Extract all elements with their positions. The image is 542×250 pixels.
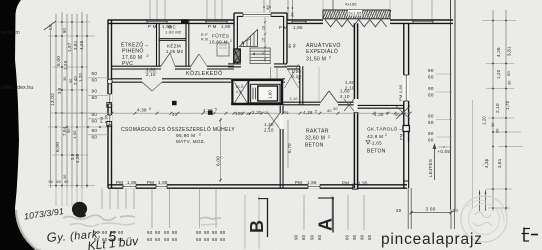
stairwell top window: [243, 12, 271, 16]
column blocks: [172, 101, 177, 105]
svg-text:2,10: 2,10: [146, 72, 156, 77]
black scan band left edge: [0, 0, 35, 250]
svg-text:1,20: 1,20: [78, 73, 83, 82]
lift car: [251, 84, 280, 103]
svg-text:60: 60: [92, 95, 98, 100]
wall etkezo/wc: [156, 23, 158, 66]
door corridor to aruatvevo: [285, 64, 299, 88]
svg-text:ELŐ: ELŐ: [236, 84, 244, 89]
svg-text:PVC: PVC: [122, 61, 133, 67]
svg-text:2: 2: [385, 133, 387, 137]
svg-text:60: 60: [92, 78, 98, 83]
door swings top rooms: [161, 53, 170, 66]
svg-text:R.P: R.P: [201, 33, 208, 37]
svg-text:5: 5: [149, 107, 151, 111]
svg-text:30: 30: [265, 5, 270, 10]
svg-text:R.N: R.N: [201, 38, 208, 42]
gk right wall: [403, 23, 405, 188]
svg-text:2,10: 2,10: [340, 94, 350, 99]
svg-text:90: 90: [352, 234, 357, 240]
svg-text:90: 90: [428, 86, 434, 91]
corridor bottom wall: [112, 78, 143, 80]
bottom wall windows: [123, 184, 136, 189]
svg-text:30: 30: [63, 174, 67, 179]
svg-text:32,60 M: 32,60 M: [305, 136, 325, 142]
svg-text:90: 90: [506, 71, 511, 76]
svg-text:15: 15: [264, 111, 269, 115]
svg-text:60: 60: [155, 237, 161, 242]
svg-text:1,97: 1,97: [67, 42, 72, 52]
svg-text:40: 40: [293, 43, 297, 48]
svg-text:90: 90: [294, 234, 299, 240]
svg-text:4x185: 4x185: [345, 3, 357, 7]
svg-text:90: 90: [428, 68, 434, 73]
horizontal wall south of aruatvevo: [283, 101, 320, 103]
door V swing up: [320, 91, 329, 103]
svg-text:2,10: 2,10: [290, 97, 298, 101]
raktar-gk door swing: [344, 99, 354, 111]
raktar 6,70 vertical dim: [287, 120, 289, 168]
svg-text:1,60: 1,60: [345, 80, 355, 85]
left outer wall: [107, 20, 109, 189]
svg-text:1,95: 1,95: [293, 25, 303, 30]
svg-text:60: 60: [220, 237, 226, 242]
svg-text:PIHENŐ: PIHENŐ: [122, 48, 144, 55]
svg-text:90: 90: [92, 89, 98, 94]
svg-text:90: 90: [428, 131, 434, 136]
left column stubs below wall: [55, 188, 57, 206]
corridor door swing: [142, 82, 152, 91]
svg-text:60: 60: [92, 119, 98, 124]
svg-text:2,30: 2,30: [252, 110, 262, 115]
stairwell bottom wall pieces: [228, 63, 241, 65]
svg-text:4,26: 4,26: [484, 158, 489, 168]
svg-text:2,10: 2,10: [345, 86, 355, 91]
svg-text:2,10: 2,10: [495, 103, 500, 113]
pillar block in top wall: [181, 19, 188, 23]
svg-text:5: 5: [315, 110, 317, 114]
gk gate door X: [396, 106, 410, 119]
zigzag stair marks under ramp: [325, 20, 387, 27]
svg-text:60: 60: [428, 120, 434, 125]
svg-text:1,70: 1,70: [505, 100, 510, 110]
svg-text:3,81: 3,81: [507, 46, 512, 56]
wall right of wc block: [185, 20, 187, 67]
svg-text:PM: PM: [295, 180, 302, 185]
svg-text:4,26: 4,26: [496, 47, 501, 57]
section marker B: [267, 198, 269, 237]
svg-text:60: 60: [147, 237, 153, 242]
right outer wall double line: [450, 0, 452, 209]
svg-text:50: 50: [92, 71, 98, 76]
corridor top wall: [112, 65, 162, 67]
svg-text:P M: P M: [148, 24, 157, 29]
svg-text:1,29: 1,29: [63, 60, 68, 70]
E- mark right: [523, 228, 525, 242]
svg-text:-1,65: -1,65: [370, 141, 382, 146]
svg-text:10,60 M: 10,60 M: [209, 40, 228, 45]
lift block walls: [231, 79, 283, 82]
workshop 6,00 vertical dim: [220, 118, 222, 182]
svg-text:90: 90: [204, 230, 210, 235]
svg-text:1,40: 1,40: [264, 122, 274, 127]
svg-text:90: 90: [92, 112, 98, 117]
svg-text:60: 60: [428, 138, 434, 143]
svg-text:40: 40: [395, 113, 400, 117]
stair triangle upper flight: [240, 30, 258, 47]
duct box bottom-left of stairwell: [234, 49, 241, 62]
svg-text:4,9: 4,9: [236, 90, 241, 94]
svg-text:1,90: 1,90: [72, 130, 77, 139]
svg-text:30: 30: [401, 111, 406, 115]
raktar right wall: [353, 23, 355, 188]
svg-text:17,60 M: 17,60 M: [122, 55, 142, 61]
svg-text:EXPEDIÁLÓ: EXPEDIÁLÓ: [306, 48, 338, 55]
svg-text:+0,05: +0,05: [438, 149, 451, 154]
svg-text:CSOMAGOLÓ ÉS ÖSSZESZERELŐ MŰHE: CSOMAGOLÓ ÉS ÖSSZESZERELŐ MŰHELY: [121, 126, 235, 133]
svg-text:6,00: 6,00: [216, 156, 222, 166]
svg-text:P M: P M: [208, 24, 217, 29]
svg-text:/peter-m: /peter-m: [1, 30, 20, 36]
svg-text:2: 2: [329, 56, 331, 60]
svg-text:1,95: 1,95: [307, 180, 317, 185]
svg-text:30: 30: [508, 80, 512, 85]
top wall window symbols: [147, 21, 167, 23]
svg-text:B: B: [247, 220, 267, 233]
svg-text:90: 90: [496, 128, 500, 133]
stairs lower flight treads: [250, 47, 270, 49]
svg-text:16: 16: [262, 26, 266, 30]
svg-text:4,38: 4,38: [137, 108, 147, 113]
svg-text:90: 90: [147, 230, 153, 235]
svg-text:60: 60: [288, 43, 292, 48]
circle marker on left wall: [107, 79, 112, 84]
paper edge arc bottom left: [16, 210, 95, 250]
hatched entry ramp: [323, 10, 390, 19]
svg-text:15: 15: [246, 112, 251, 116]
svg-text:2: 2: [199, 132, 201, 136]
left wall windows: [107, 94, 112, 104]
stairwell walls: [233, 13, 235, 64]
svg-text:90: 90: [212, 230, 218, 235]
svg-text:PM 1,95: PM 1,95: [398, 84, 403, 101]
svg-text:90: 90: [360, 234, 365, 240]
svg-text:GK.TÁROLÓ –: GK.TÁROLÓ –: [367, 126, 402, 133]
svg-text:90: 90: [64, 180, 69, 184]
svg-text:60: 60: [172, 237, 178, 242]
svg-text:2,10: 2,10: [264, 128, 274, 133]
svg-text:60: 60: [301, 234, 306, 240]
lift shaft X cell: [235, 83, 248, 103]
dark blob bottom left: [70, 200, 88, 218]
svg-text:20: 20: [396, 208, 402, 213]
svg-text:PM: PM: [99, 117, 104, 123]
svg-text:ÉTKEZŐ –: ÉTKEZŐ –: [121, 42, 148, 49]
svg-text:60: 60: [196, 237, 202, 242]
svg-text:15: 15: [262, 38, 266, 42]
svg-text:2: 2: [230, 39, 232, 43]
svg-text:90: 90: [172, 230, 178, 235]
svg-text:60: 60: [317, 234, 322, 240]
svg-text:1,05 M2: 1,05 M2: [166, 49, 184, 54]
svg-text:PM: PM: [147, 180, 154, 185]
svg-text:3,81: 3,81: [73, 40, 78, 50]
bottom outer wall: [108, 184, 407, 186]
svg-text:5: 5: [386, 112, 388, 116]
svg-text:90: 90: [92, 128, 98, 133]
svg-text:ÁRUÁTVEVŐ: ÁRUÁTVEVŐ: [306, 42, 341, 49]
wc divider: [159, 38, 186, 40]
svg-text:60: 60: [204, 237, 210, 242]
left column tick rows: [58, 21, 90, 23]
svg-text:90: 90: [428, 114, 434, 119]
svg-text:60: 60: [164, 237, 170, 242]
svg-text:PM: PM: [399, 134, 404, 140]
driveway 3.00 dimension: [411, 212, 451, 214]
svg-text:90: 90: [67, 128, 71, 133]
svg-text:LEJTÉS: LEJTÉS: [427, 159, 433, 177]
gk top wall: [358, 104, 404, 106]
svg-text:1,20: 1,20: [496, 69, 501, 79]
svg-text:31,50 M: 31,50 M: [306, 57, 326, 63]
svg-text:20: 20: [453, 208, 459, 213]
svg-text:6,00: 6,00: [55, 142, 61, 152]
svg-text:1,60: 1,60: [268, 90, 273, 99]
raktar left wall: [279, 106, 281, 188]
svg-text:30: 30: [491, 122, 495, 127]
svg-text:90: 90: [118, 230, 124, 235]
svg-text:KÉZM: KÉZM: [167, 43, 181, 49]
svg-text:BETON: BETON: [305, 143, 324, 149]
outer top wall: [108, 19, 234, 21]
svg-text:90: 90: [220, 230, 226, 235]
right dimension column: [492, 10, 494, 211]
svg-text:3,8: 3,8: [57, 87, 62, 94]
svg-text:1,20: 1,20: [482, 116, 487, 125]
svg-text:PM: PM: [116, 180, 123, 185]
svg-text:5x1,85: 5x1,85: [349, 12, 362, 16]
svg-text:3,81: 3,81: [497, 158, 502, 168]
svg-text:90: 90: [102, 230, 108, 235]
svg-text:75: 75: [284, 111, 289, 115]
svg-text:60: 60: [428, 93, 434, 98]
svg-text:60: 60: [367, 234, 372, 240]
svg-text:5: 5: [215, 108, 217, 112]
svg-text:60: 60: [92, 135, 98, 140]
svg-text:6,70: 6,70: [287, 143, 292, 153]
svg-text:90: 90: [62, 27, 67, 33]
svg-text:90: 90: [155, 230, 161, 235]
svg-text:40: 40: [172, 112, 178, 117]
svg-text:90: 90: [310, 234, 315, 240]
svg-text:pincealaprajz: pincealaprajz: [381, 231, 483, 248]
svg-text:60: 60: [428, 75, 434, 80]
svg-text:36: 36: [290, 12, 295, 17]
stamp circle: [461, 196, 507, 242]
driveway edge lines below: [407, 188, 409, 229]
svg-text:4,26: 4,26: [75, 154, 80, 163]
aruatvevo left wall: [299, 66, 301, 105]
lejtes slope arrow: [434, 146, 436, 180]
svg-text:43,8 M: 43,8 M: [367, 134, 383, 140]
svg-text:PM: PM: [342, 181, 349, 186]
svg-text:1,95: 1,95: [221, 24, 231, 29]
svg-text:sidel.ndex.hu: sidel.ndex.hu: [1, 85, 33, 91]
stair arrow small: [242, 39, 250, 43]
svg-text:3 00: 3 00: [426, 207, 436, 212]
gk right window: [403, 126, 409, 132]
top extension lines: [149, 0, 151, 20]
svg-text:90: 90: [196, 230, 202, 235]
under-wall extension lines: [101, 189, 103, 210]
svg-text:90: 90: [164, 230, 170, 235]
svg-text:2: 2: [328, 135, 330, 139]
lower flight arrow: [253, 53, 262, 55]
stair dim line center: [264, 17, 266, 62]
svg-text:40: 40: [327, 109, 332, 113]
svg-text:KÖZLEKEDŐ: KÖZLEKEDŐ: [186, 70, 223, 77]
svg-text:4,38: 4,38: [374, 112, 384, 117]
flight edges continuing into corridor: [269, 67, 271, 79]
svg-text:4,38: 4,38: [303, 110, 313, 115]
left dimension column lines: [50, 30, 52, 188]
svg-text:30: 30: [63, 76, 67, 81]
svg-text:1,90 M2: 1,90 M2: [165, 29, 182, 34]
svg-text:13,02: 13,02: [50, 93, 56, 106]
svg-text:90: 90: [49, 180, 54, 184]
svg-text:A: A: [316, 218, 336, 231]
svg-text:60: 60: [57, 180, 62, 184]
heating room boiler: [217, 43, 229, 56]
svg-text:1,95: 1,95: [158, 180, 168, 185]
svg-text:MÁTV. MOZ.: MÁTV. MOZ.: [176, 138, 205, 144]
svg-text:1,95: 1,95: [358, 181, 368, 186]
svg-text:60: 60: [212, 237, 218, 242]
svg-text:1,95: 1,95: [127, 180, 137, 185]
svg-text:4,26: 4,26: [79, 40, 84, 50]
svg-text:FŰTÉS: FŰTÉS: [212, 33, 229, 40]
raktar door swing: [268, 113, 280, 129]
faint pencil scribbles: [63, 215, 221, 220]
svg-text:30: 30: [333, 107, 338, 111]
svg-text:2: 2: [147, 54, 149, 58]
section marker A: [332, 197, 334, 233]
extension lines near section B: [244, 195, 246, 249]
svg-text:100: 100: [235, 111, 243, 116]
svg-text:BETON: BETON: [367, 148, 386, 154]
svg-text:60: 60: [345, 234, 350, 240]
svg-text:RAKTÁR: RAKTÁR: [306, 128, 329, 135]
svg-text:6,00: 6,00: [56, 56, 62, 66]
interior horizontal dimension row: [56, 112, 410, 114]
